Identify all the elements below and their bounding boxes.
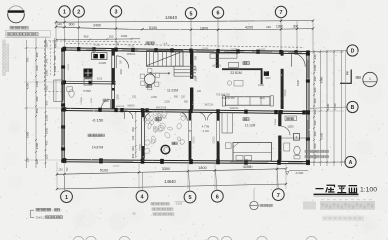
stair up arrow [150, 72, 152, 74]
terrace stone paving [143, 110, 187, 156]
level mark -0.300 [289, 169, 308, 171]
bed [233, 143, 272, 162]
terrace door arcs [145, 112, 154, 121]
svg-text:-0.020: -0.020 [202, 130, 210, 133]
svg-text:900: 900 [84, 35, 89, 39]
svg-text:1800: 1800 [44, 127, 48, 134]
svg-text:750 248 250: 750 248 250 [216, 94, 231, 97]
svg-text:6: 6 [216, 194, 219, 200]
axis circle 6 [212, 7, 223, 18]
svg-text:C2415: C2415 [259, 49, 266, 51]
store room fixtures [69, 90, 74, 98]
ac note right [305, 150, 329, 152]
window lines bottom wall [100, 160, 133, 162]
svg-text:300: 300 [53, 55, 57, 60]
living room column block [216, 53, 219, 69]
hall east wall [217, 110, 220, 121]
svg-text:(: ( [53, 208, 54, 212]
axis circle D [347, 45, 358, 56]
svg-text:900: 900 [35, 96, 39, 101]
title yiceng pingmian [316, 185, 358, 193]
svg-text:5100: 5100 [100, 168, 108, 172]
svg-text:1200: 1200 [313, 64, 317, 71]
note text top-left [10, 26, 28, 29]
svg-text:2400: 2400 [93, 23, 101, 27]
svg-text:M0722A: M0722A [205, 104, 214, 107]
svg-text:12.12M: 12.12M [245, 124, 256, 128]
svg-text:150: 150 [109, 34, 114, 38]
svg-text:300: 300 [313, 131, 317, 136]
axis-3 interior wall [111, 49, 113, 109]
svg-text:7: 7 [277, 193, 280, 199]
svg-text:750 240 950: 750 240 950 [221, 97, 235, 100]
kitchen stove [92, 53, 108, 60]
partial circles bottom edge [73, 236, 84, 240]
bottom wall columns [63, 158, 67, 163]
svg-text:1600: 1600 [120, 69, 123, 75]
svg-text:-0.150: -0.150 [92, 117, 104, 122]
terrace gate line [144, 109, 188, 112]
svg-text:8.23: 8.23 [97, 77, 103, 81]
svg-text:6: 6 [217, 11, 220, 17]
dining table [145, 74, 156, 85]
svg-text:120: 120 [25, 157, 29, 162]
svg-text:D: D [351, 49, 355, 55]
svg-text:C0919: C0919 [285, 89, 287, 96]
svg-text:4200: 4200 [319, 76, 323, 83]
bottom axis circle 5 [184, 191, 196, 203]
living bulkhead L [222, 68, 263, 70]
left bay window [54, 80, 63, 102]
top wall columns [63, 47, 66, 51]
svg-text:C2424: C2424 [231, 48, 238, 50]
svg-text:900: 900 [313, 143, 317, 148]
svg-text:5: 5 [188, 195, 191, 201]
svg-text:SMC3038: SMC3038 [156, 108, 167, 110]
bottom axis circle 1 [61, 191, 73, 203]
axis circle B [347, 101, 358, 112]
detail flag 2 [340, 82, 351, 84]
bottom outer wall [62, 160, 310, 162]
dimension line 14640 top [56, 21, 313, 23]
svg-text:300: 300 [35, 52, 39, 57]
svg-text:4200: 4200 [245, 26, 253, 30]
kitchen sink unit [84, 69, 93, 78]
left margin vertical text [3, 40, 5, 75]
bottom axis circle 4 [136, 191, 148, 203]
dimension line small top [56, 39, 140, 40]
svg-text:2400: 2400 [35, 142, 39, 149]
svg-text:1800: 1800 [198, 166, 206, 170]
svg-text:4200: 4200 [25, 82, 29, 89]
svg-text:1000: 1000 [121, 34, 128, 38]
svg-text:600: 600 [313, 120, 317, 125]
svg-text:-0.020: -0.020 [98, 61, 107, 65]
bedroom label [243, 118, 249, 121]
svg-text:C2415: C2415 [113, 166, 120, 168]
living coffee table [234, 81, 243, 87]
right dimension ticks [313, 51, 315, 53]
terrace well [161, 145, 170, 154]
svg-text:T0605B: T0605B [81, 97, 83, 105]
svg-text:450: 450 [35, 108, 39, 113]
svg-text:20#1:2: 20#1:2 [36, 215, 46, 219]
bedroom wardrobe [222, 113, 233, 134]
svg-text:C2415: C2415 [247, 167, 254, 169]
bathroom fixtures [284, 143, 290, 151]
svg-text:3: 3 [115, 10, 118, 16]
svg-text:1980: 1980 [258, 83, 264, 87]
staircase [147, 51, 184, 67]
svg-text:360: 360 [53, 43, 57, 48]
svg-text:180: 180 [44, 42, 48, 47]
bottom dimension line bays [57, 169, 286, 175]
bottom dimension line overall [57, 184, 286, 189]
svg-text:5.55M: 5.55M [83, 89, 91, 93]
dimension line bays top [56, 27, 313, 30]
bottom axis circle 6 [211, 190, 223, 202]
sofa bottom [226, 97, 271, 105]
axis circle 5 [185, 8, 196, 19]
svg-text:1200: 1200 [44, 114, 48, 121]
svg-text:300: 300 [293, 24, 299, 28]
title underline [314, 193, 359, 195]
svg-text:780: 780 [25, 57, 29, 62]
note bottom-left line 1 [36, 208, 51, 211]
svg-text:240: 240 [131, 135, 135, 140]
svg-text:900: 900 [184, 100, 189, 103]
window lines top wall [86, 48, 106, 50]
bathroom door arc [281, 127, 290, 136]
svg-text:700: 700 [66, 167, 69, 172]
svg-text:120: 120 [132, 96, 137, 99]
svg-text:W0922A: W0922A [230, 107, 239, 110]
terrace label [155, 118, 161, 121]
window lines left wall [62, 84, 64, 100]
canopy dashed line [66, 44, 304, 48]
bathroom partition [281, 137, 306, 139]
svg-text:1200: 1200 [287, 125, 294, 129]
left dimension lines [26, 40, 28, 168]
svg-text:6013: 6013 [265, 78, 271, 80]
detail box 1 [294, 134, 300, 141]
left dimension ticks [26, 47, 28, 49]
vent detail circle bottom [253, 189, 255, 202]
axis circle A [345, 156, 356, 167]
store door arc [102, 100, 111, 109]
svg-text:5330: 5330 [296, 79, 300, 86]
svg-text:3300: 3300 [25, 131, 29, 138]
svg-text:120: 120 [58, 168, 63, 172]
svg-text:M0803: M0803 [127, 105, 135, 107]
living room label [243, 62, 249, 65]
svg-text:14640: 14640 [165, 15, 178, 20]
tv cabinet top [210, 54, 237, 58]
svg-text:250: 250 [194, 66, 197, 71]
svg-text:): ) [61, 208, 62, 212]
svg-text:450: 450 [44, 140, 48, 145]
svg-text:3300: 3300 [162, 167, 170, 171]
svg-text:4.77M: 4.77M [202, 125, 210, 129]
svg-text:C1224: C1224 [128, 46, 135, 48]
hall door arcs [198, 112, 206, 120]
middle wall [62, 108, 310, 111]
svg-text:160: 160 [117, 41, 120, 46]
hall west wall [189, 110, 192, 121]
svg-text:800: 800 [131, 127, 135, 132]
middle wall columns [63, 107, 66, 111]
svg-text:B: B [351, 105, 355, 111]
right extension lines [310, 51, 344, 53]
axis circle 3 [110, 6, 121, 17]
svg-text:1200: 1200 [91, 97, 93, 103]
svg-text:C0815: C0815 [275, 118, 277, 125]
foyer dim chain [135, 112, 137, 157]
svg-text:7740: 7740 [333, 103, 337, 110]
foyer note [88, 134, 104, 136]
dining label [146, 85, 152, 88]
note bottom-left bracket [30, 210, 32, 218]
window lines right wall [307, 60, 309, 78]
bedroom east wall [278, 110, 281, 126]
scan noise darker flecks [55, 43, 340, 189]
kitchen partition wall [62, 80, 116, 83]
right outer wall [306, 52, 308, 162]
svg-text:900: 900 [44, 100, 48, 105]
left outer wall [61, 48, 63, 161]
svg-text:M0826A: M0826A [127, 53, 136, 56]
terrace west wall [141, 109, 143, 160]
living room west wall [190, 51, 193, 67]
left extension lines [24, 47, 62, 49]
kitchen label [85, 76, 91, 79]
axis leader lines top [64, 17, 66, 48]
svg-text:3300: 3300 [319, 132, 323, 139]
detail bubble top-left [8, 13, 25, 23]
svg-text:C1213: C1213 [68, 63, 70, 70]
bottom extension lines [56, 162, 58, 189]
axis circle 1 [59, 6, 70, 17]
svg-text:5: 5 [190, 11, 193, 17]
svg-text:120: 120 [44, 154, 48, 159]
ac unit box [285, 116, 297, 121]
svg-text:': ' [271, 188, 272, 193]
svg-text:4200: 4200 [326, 103, 330, 110]
svg-text:C2424: C2424 [202, 48, 209, 50]
svg-text:900: 900 [194, 55, 197, 60]
axis circle 2 [73, 6, 84, 17]
svg-text:1800: 1800 [200, 26, 208, 30]
entry door arc [291, 53, 293, 67]
bottom axis circle 7 [272, 189, 284, 201]
svg-text:120: 120 [197, 90, 202, 93]
kitchen door arc [115, 56, 117, 69]
svg-text:C0919: C0919 [214, 136, 216, 143]
watermark block [303, 202, 316, 210]
axis circle 7 [275, 6, 286, 17]
svg-text:C1524: C1524 [94, 45, 101, 47]
bedroom nightstand [226, 143, 232, 149]
svg-text:2: 2 [77, 10, 80, 16]
living east wall with entry door [281, 51, 284, 56]
svg-text:300: 300 [313, 76, 317, 81]
svg-text:C0919: C0919 [194, 136, 196, 143]
top outer wall [62, 48, 310, 52]
dashed porch outline left [44, 41, 46, 92]
right dim extension line [345, 50, 347, 166]
svg-text:2100: 2100 [164, 101, 170, 104]
foyer door arc [125, 111, 133, 119]
svg-text:1300: 1300 [35, 80, 39, 87]
stair break line [147, 51, 183, 65]
svg-text:-0.300: -0.300 [295, 171, 304, 175]
right dimension lines [313, 50, 315, 166]
